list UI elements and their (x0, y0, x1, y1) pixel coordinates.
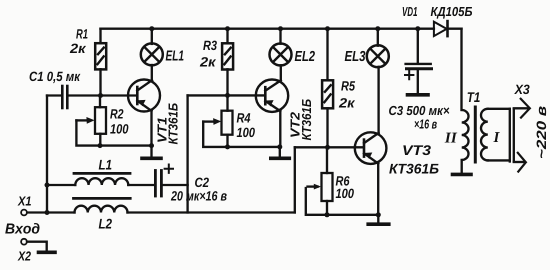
node: rail junction EL2 (278, 26, 283, 31)
wire: top supply rail (101, 28, 462, 30)
ground at X2 (39, 251, 56, 255)
label Вход (5, 223, 39, 234)
node: rail junction EL1 (149, 26, 154, 31)
ground below T1 winding II (453, 173, 472, 177)
ground below VT3 (368, 215, 389, 224)
label R5 value (339, 81, 355, 107)
transformer T1 winding II (462, 110, 469, 173)
node: VT3 base junction (325, 145, 330, 150)
capacitor C1 (47, 86, 99, 108)
potentiometer R6 (306, 147, 333, 215)
wire: rail corner down to T1 (460, 29, 462, 110)
diode VD1 (434, 21, 448, 36)
transistor VT1 (128, 80, 160, 146)
label R2 value (110, 109, 128, 134)
label L2 (99, 219, 112, 229)
label VT2 type (290, 99, 311, 140)
label EL1 (166, 51, 184, 61)
node: R6 bottom junction (325, 212, 330, 217)
label X2 (18, 251, 31, 260)
label C1 value (30, 72, 81, 84)
capacitor C3 (405, 29, 432, 94)
lamp EL2 (270, 44, 292, 66)
wire: rail to EL1 (151, 29, 153, 44)
label R1 value (70, 29, 88, 53)
wire: L2 line corner up to VT3 base line (294, 147, 296, 212)
label winding II (445, 133, 458, 143)
label VT3 type (389, 145, 438, 173)
terminal X1 (21, 210, 27, 216)
label EL3 (345, 51, 366, 61)
transformer T1 winding I (481, 109, 510, 161)
transformer T1 core (474, 107, 477, 162)
label R3 value (200, 41, 217, 67)
lamp EL1 (141, 43, 163, 65)
label VD1 type (403, 7, 472, 19)
inductor L1 (47, 173, 154, 185)
node: rail junction R3 (225, 26, 230, 31)
ground below C3 (408, 93, 429, 97)
resistor R5 (322, 29, 333, 148)
wire: rail to EL2 (279, 29, 281, 44)
node: rail junction EL3 (375, 26, 380, 31)
inductor L2 (27, 198, 295, 212)
node: VT2 base junction (225, 93, 230, 98)
resistor R3 (222, 29, 233, 96)
node: VT1 emitter junction (149, 143, 154, 148)
wire: R6 bottom to VT3 emitter (327, 214, 378, 216)
wire: R4 bottom to VT2 collector (228, 146, 280, 148)
wire: input vertical from C1 down to X1 line (46, 96, 48, 213)
wire: EL1 to VT1 collector (151, 65, 153, 80)
label ~220 в (537, 106, 547, 158)
ground below VT1 (142, 146, 161, 159)
label R6 value (336, 176, 354, 198)
wire: rail to EL3 (377, 29, 379, 46)
node: rail junction C3 (415, 26, 420, 31)
capacitor C2 (155, 165, 187, 197)
node: VT3 emitter junction (376, 212, 381, 217)
resistor R1 (95, 29, 106, 96)
label EL2 (295, 51, 315, 61)
transistor VT2 (256, 80, 288, 147)
terminal X2 (21, 239, 47, 251)
transistor VT3 (355, 132, 387, 215)
label T1 (468, 92, 480, 102)
wire: VT2 base (188, 94, 265, 96)
label X3 (514, 85, 529, 95)
wire: feedback vertical (VT2 base to C2/L2) (186, 95, 188, 212)
wire: EL3 to VT3 collector (377, 67, 379, 133)
wire: base of VT1 (101, 94, 137, 96)
node: X1 junction (45, 210, 50, 215)
X3 arrow top (514, 99, 530, 118)
label X1 (17, 197, 30, 206)
label VT1 type (158, 103, 178, 144)
label R4 value (237, 113, 255, 137)
potentiometer R4 (203, 95, 232, 146)
node: VT1 base junction (98, 93, 103, 98)
ground below VT2 (271, 147, 290, 158)
node: R4 bottom junction (225, 144, 230, 149)
lamp EL3 (367, 45, 389, 67)
label C2 value (171, 178, 227, 201)
wire: EL2 to VT2 collector (280, 65, 282, 80)
node: VT2 collector junction (277, 144, 282, 149)
label winding I (493, 132, 499, 142)
label L1 (99, 160, 112, 170)
X3 arrow bottom (514, 153, 526, 172)
node: rail junction R5 (325, 26, 330, 31)
node: R2 bottom junction (98, 143, 103, 148)
node: L1 tap junction (45, 183, 50, 188)
wire: VT3 base line (295, 146, 363, 148)
connector X3 double line (510, 109, 514, 162)
potentiometer R2 (76, 96, 106, 146)
label C3 value (389, 106, 449, 129)
wire: R2 bottom to VT1 emitter (100, 144, 152, 146)
